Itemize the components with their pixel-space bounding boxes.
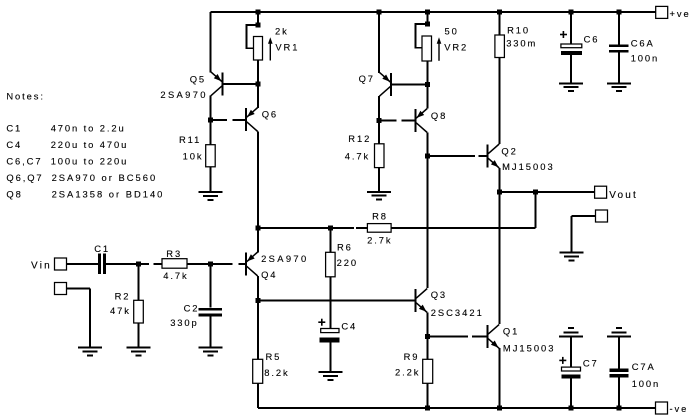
wire R10 top lead [499,12,501,35]
node Q5 collector / Q6 base / R11 [208,118,213,123]
node Q4 collector / Q3 base / R5 [256,298,261,303]
transistor Q6 emitter with arrow [247,108,258,118]
wire feedback riser to Vout [535,192,537,228]
svg-text:R10: R10 [507,24,530,35]
node top rail / VR1 [256,10,261,15]
transistor Q8 bar [414,109,416,132]
svg-text:Q6: Q6 [262,108,278,119]
svg-text:2SA970: 2SA970 [160,89,207,100]
wire C2 bottom lead [209,317,211,348]
transistor Q4 collector [247,266,258,276]
ground under R11 [199,192,223,200]
svg-text:Q1: Q1 [503,325,519,336]
node top rail / R10 [497,10,502,15]
node Q7 collector / Q8 base / R12 [377,118,382,123]
transistor Q7 collector [379,87,390,97]
svg-text:Q7: Q7 [359,73,375,84]
resistor R8 [367,224,391,233]
svg-text:C4: C4 [341,320,357,331]
wire Q2 emitter to Vout node [499,168,501,192]
svg-text:VR2: VR2 [444,41,468,52]
transistor Q2 collector [488,144,499,154]
ground above C7 [559,328,583,336]
transistor Q1 bar [486,325,488,348]
transistor Q6 bar [245,108,247,131]
wire C6A bottom lead [618,53,620,84]
wire C7 top lead [570,336,572,367]
wire R12 bottom lead [378,168,380,192]
wire VR2 wiper loop [415,24,427,48]
wire VR1 bottom lead [257,60,259,84]
svg-text:4.7k: 4.7k [345,150,370,161]
node Q2 emitter / Vout line [497,190,502,195]
svg-text:C6: C6 [584,33,600,44]
resistor R3 [162,259,187,269]
ground under R12 [367,192,391,200]
capacitor C6 positive plate [561,44,582,48]
node VR1 wiper [256,23,261,28]
svg-text:2.2k: 2.2k [395,366,420,377]
wire VR2 bottom lead [427,61,429,84]
ground output return [559,253,583,261]
wire feedback line segment 2 [356,227,367,229]
potentiometer VR2 arrow [438,42,440,61]
capacitor C7 negative plate [562,374,581,378]
wire R5 top lead [257,301,259,360]
svg-text:R2: R2 [115,290,131,301]
potentiometer VR1 body [254,37,263,61]
wire Q8 emitter lead [427,84,429,108]
wire C6 top lead [570,12,572,44]
transistor Q5 bar [222,72,224,95]
svg-text:10k: 10k [183,150,204,161]
wire Vin to C1 [67,263,99,265]
svg-text:100u to 220u: 100u to 220u [51,155,129,166]
wire Q8 base segment 2 [402,119,415,121]
ground under C6A [607,83,631,91]
capacitor C7 positive plate [562,367,581,371]
terminal -ve box [656,402,668,414]
ground under R2 [127,348,151,356]
svg-text:100n: 100n [631,52,659,63]
wire R9 top lead [427,336,429,359]
wire R9 bottom lead [427,383,429,408]
wire C4 bottom lead [329,342,331,372]
resistor R10 [495,35,505,58]
wire R10 to Q2 collector [499,58,501,145]
wire Q8 base segment 1 [379,119,397,121]
svg-text:Notes:: Notes: [6,90,45,101]
node R3 / C2 / Q4 base [208,262,213,267]
wire Q1 emitter to -ve rail [499,348,501,408]
wire VR2 stub from rail [427,12,429,24]
node Q8 collector / Q2 base / Q3 collector [425,154,430,159]
svg-text:VR1: VR1 [275,41,299,52]
capacitor C7A bottom plate [610,374,629,378]
ground under C6 [559,83,583,91]
svg-text:4.7k: 4.7k [163,270,188,281]
wire Q7 emitter lead [378,12,380,73]
transistor Q3 bar [414,289,416,312]
node VR2 wiper [425,22,430,27]
wire Q4 emitter lead [257,228,259,253]
svg-text:+ve: +ve [670,8,690,19]
terminal Vout box [595,186,607,198]
wire Q5 base to VR1 node [224,83,257,85]
wire Q5 emitter lead [210,12,212,72]
resistor R11 [206,145,216,167]
potentiometer VR2 body [422,36,432,61]
wire feedback line segment 1 [258,227,354,229]
svg-text:C7A: C7A [632,361,656,372]
svg-text:8.2k: 8.2k [264,367,289,378]
wire Q6 collector down to feedback node [257,132,259,229]
transistor Q2 emitter with arrow [488,158,499,168]
wire VR1 wiper loop [246,25,258,48]
wire Q4 base segment 2 [238,263,245,265]
transistor Q5 collector [211,86,222,96]
wire C7 bottom lead [570,379,572,408]
node top rail / C6A [617,10,622,15]
wire Q2 base segment 1 [428,155,476,157]
wire C7A top lead [618,336,620,368]
node top rail / C6 [569,10,574,15]
wire +ve top rail [211,11,656,13]
wire VR1 stub from rail [257,12,259,25]
svg-text:47k: 47k [110,305,131,316]
capacitor C4 positive plate [321,329,339,333]
resistor R2 [134,300,144,323]
capacitor C6A top plate [609,44,629,47]
capacitor C2 bottom plate [198,314,222,317]
node VR2 / Q7 base / Q8 emitter [425,82,430,87]
wire R2 bottom lead [138,323,140,348]
svg-text:MJ15003: MJ15003 [502,161,555,172]
capacitor C6 negative plate [561,51,582,55]
terminal input return box [55,283,67,295]
wire C6A top lead [618,12,620,44]
wire Q6 base segment 2 [233,119,246,121]
wire Q3 collector riser [427,156,429,288]
wire -ve bottom rail [258,407,656,409]
svg-text:R12: R12 [348,133,371,144]
wire output return horizontal [571,215,595,217]
svg-text:C6A: C6A [631,37,655,48]
node top rail / VR2 [425,10,430,15]
node VR1 / Q5 base / Q6 emitter [256,81,261,86]
svg-text:Q5: Q5 [190,73,206,84]
wire C6 bottom lead [570,55,572,83]
node bottom rail / C7 [569,406,574,411]
transistor Q1 collector [488,324,499,334]
transistor Q2 bar [486,145,488,168]
svg-text:Vout: Vout [609,190,638,201]
transistor Q7 emitter with arrow [379,72,390,82]
wire Q1 base segment 2 [472,335,486,337]
svg-text:R5: R5 [266,351,282,362]
svg-text:R3: R3 [166,248,182,259]
wire C1 to R2 node [106,263,139,265]
wire feedback line segment 3 [391,227,536,229]
resistor R12 [375,144,385,168]
transistor Q7 bar [390,73,392,96]
transistor Q8 emitter with arrow [416,109,427,119]
node feedback tap on Vout line [533,190,538,195]
svg-text:Vin: Vin [31,260,52,271]
svg-text:330p: 330p [170,317,198,328]
transistor Q1 emitter with arrow [488,339,499,349]
svg-text:C2: C2 [184,302,200,313]
svg-text:220u to 470u: 220u to 470u [51,139,129,150]
capacitor C4 plus sign [318,321,325,323]
ground under C2 [198,348,222,356]
wire Vout node to Q1 collector [499,192,501,324]
terminal +ve box [656,6,668,18]
wire Q3 base line [258,300,414,302]
capacitor C6 plus sign [560,34,567,36]
svg-text:R11: R11 [179,134,201,145]
svg-text:2k: 2k [275,25,289,36]
wire R5 bottom lead to -ve rail [257,383,259,408]
wire R6 to C4 [329,277,331,329]
svg-text:Q2: Q2 [501,145,517,156]
ground under C4 [318,372,342,380]
wire Vout line [500,191,595,193]
wire Q3 emitter lead [427,313,429,337]
capacitor C2 top plate [198,308,222,311]
wire input return horizontal [67,288,91,290]
svg-text:Q8: Q8 [431,110,447,121]
resistor R9 [423,359,433,383]
wire output return vertical [570,216,572,252]
svg-text:470n to 2.2u: 470n to 2.2u [51,122,126,133]
capacitor C1 right plate [103,254,106,275]
transistor Q3 collector [416,289,427,299]
svg-text:2SC3421: 2SC3421 [431,307,484,318]
resistor R6 [326,252,336,276]
svg-text:C1: C1 [94,243,110,254]
wire R3 to C2 node [187,263,210,265]
svg-text:330m: 330m [506,37,537,48]
transistor Q3 emitter with arrow [416,303,427,313]
wire R11 bottom lead [210,167,212,192]
node bottom rail / R9 [425,406,430,411]
potentiometer VR1 arrow [269,42,271,61]
wire Q4 collector lead [257,276,259,301]
wire R2 top lead [138,264,140,300]
wire Q7 base to VR2 node [392,83,425,85]
wire C7A bottom lead [618,377,620,408]
terminal Vin box [55,258,67,270]
svg-text:100n: 100n [632,378,660,389]
svg-text:-ve: -ve [670,403,689,414]
svg-text:R6: R6 [337,241,353,252]
capacitor C4 negative plate [320,337,340,342]
wire R6 top lead [329,228,331,252]
wire Q7 collector lead [378,96,380,121]
svg-text:220: 220 [337,257,358,268]
wire node to R3 segment 2 [154,263,163,265]
wire Q6 base segment 1 [211,119,228,121]
svg-text:50: 50 [445,25,459,36]
node Q6 collector / Q4 emitter / R8 line [256,226,261,231]
svg-text:R8: R8 [372,210,388,221]
transistor Q4 bar [245,253,247,276]
svg-text:C7: C7 [583,357,599,368]
wire R12 top lead [378,121,380,144]
transistor Q5 emitter with arrow [211,72,222,82]
svg-text:C6,C7: C6,C7 [6,155,42,166]
svg-text:Q3: Q3 [431,289,447,300]
capacitor C6A bottom plate [609,50,629,53]
wire Q2 base segment 2 [479,155,487,157]
node R6 top [328,226,333,231]
terminal output return box [596,210,608,222]
transistor Q8 collector [416,123,427,133]
transistor Q4 emitter with arrow [247,252,258,262]
wire C2 top lead [209,264,211,308]
node bottom rail / Q1 emitter [497,406,502,411]
ground above C7A [607,328,631,336]
svg-text:Q8: Q8 [6,188,22,199]
svg-text:C1: C1 [6,122,22,133]
wire R11 top lead [210,120,212,145]
svg-text:Q4: Q4 [261,269,277,280]
svg-text:2.7k: 2.7k [367,234,392,245]
wire node to R3 segment 1 [139,263,149,265]
ground input return [78,348,102,356]
capacitor C7A top plate [610,369,629,372]
svg-text:2SA1358 or BD140: 2SA1358 or BD140 [52,188,165,199]
node C1 / R2 / R3 [136,262,141,267]
node Q3 emitter / R9 / Q1 base [425,334,430,339]
wire Q8 collector lead [427,133,429,157]
node bottom rail / C7A [617,406,622,411]
svg-text:2SA970: 2SA970 [261,253,308,264]
svg-text:Q6,Q7: Q6,Q7 [6,172,43,183]
svg-text:C4: C4 [6,139,22,150]
wire Q6 emitter lead [257,84,259,108]
transistor Q6 collector [247,122,258,132]
wire input return vertical [89,289,91,348]
capacitor C7 plus sign [559,359,566,361]
wire Q4 base segment 1 [210,263,232,265]
capacitor C1 left plate [98,254,101,275]
svg-text:2SA970 or BC560: 2SA970 or BC560 [52,172,158,183]
wire Q1 base segment 1 [428,335,468,337]
wire Q5 collector lead [210,96,212,121]
node top rail / Q7 emitter [377,10,382,15]
svg-text:MJ15003: MJ15003 [503,342,556,353]
svg-text:R9: R9 [404,351,420,362]
resistor R5 [253,359,263,383]
